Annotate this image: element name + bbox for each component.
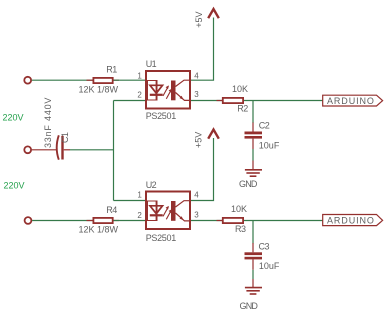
wire C3 to GND <box>252 259 254 287</box>
svg-text:2: 2 <box>137 91 142 100</box>
wire junction to C3 <box>252 221 254 253</box>
wire pad1 to R1 <box>32 79 93 81</box>
emitter U2 with arrow <box>176 213 191 221</box>
wire C2 to GND <box>252 139 254 169</box>
svg-text:+5V: +5V <box>194 132 204 148</box>
svg-text:10K: 10K <box>232 84 248 94</box>
wire bus vertical <box>113 101 115 201</box>
net flag ARDUINO bottom <box>323 215 383 226</box>
collector U2 <box>176 201 191 207</box>
svg-text:GND: GND <box>239 179 258 189</box>
svg-text:C3: C3 <box>259 241 270 251</box>
svg-text:+5V: +5V <box>194 11 204 27</box>
capacitor C3 <box>245 241 280 271</box>
wire R1 pin stubs <box>87 79 93 81</box>
emitter U1 with arrow <box>176 93 191 101</box>
terminal pad bottom <box>25 217 32 224</box>
wire U1 pin3 to R2 <box>191 100 222 102</box>
svg-text:220V: 220V <box>3 113 24 123</box>
wire U2 pin3 to R3 <box>191 220 222 222</box>
wire bus to U2 pin1 <box>114 200 146 202</box>
svg-text:PS2501: PS2501 <box>146 111 177 121</box>
light arrows U1 <box>163 85 172 98</box>
wire U1 pin4 to +5V <box>191 18 214 81</box>
wire U2 pin4 to +5V <box>191 138 214 201</box>
resistor R2 <box>223 84 248 114</box>
svg-text:ARDUINO: ARDUINO <box>327 96 375 106</box>
svg-text:R4: R4 <box>106 205 117 215</box>
LED D-U1 <box>150 81 163 101</box>
wire R1 to U1 pin1 <box>114 79 146 81</box>
svg-text:4: 4 <box>194 71 199 80</box>
svg-text:ARDUINO: ARDUINO <box>327 215 375 225</box>
supply +5V lower <box>194 130 219 149</box>
resistor R3 <box>223 204 247 234</box>
svg-text:4: 4 <box>194 191 199 200</box>
svg-text:1: 1 <box>137 191 142 200</box>
ground GND bottom <box>240 288 263 311</box>
resistor R4 <box>79 205 119 234</box>
svg-text:10K: 10K <box>231 204 247 214</box>
svg-text:12K 1/8W: 12K 1/8W <box>79 225 119 235</box>
svg-text:R2: R2 <box>237 104 248 114</box>
wire pad2 to C1 <box>32 149 56 151</box>
svg-text:C2: C2 <box>259 120 270 130</box>
phototransistor base bar U2 <box>171 201 176 221</box>
collector U1 <box>176 80 191 86</box>
svg-text:U1: U1 <box>146 59 157 69</box>
svg-text:PS2501: PS2501 <box>146 233 177 243</box>
LED loop rectangle U2 <box>148 201 158 221</box>
wire pad3 to R4 <box>32 220 92 222</box>
wire U1 pin2 to bus <box>114 100 146 102</box>
svg-text:U2: U2 <box>146 180 157 190</box>
terminal pad top <box>24 77 31 84</box>
resistor R1 <box>79 65 119 95</box>
svg-text:10uF: 10uF <box>259 261 280 271</box>
capacitor C2 <box>245 120 280 150</box>
svg-text:R1: R1 <box>106 65 117 75</box>
wire R4 to U2 pin2 <box>114 220 146 222</box>
svg-text:12K 1/8W: 12K 1/8W <box>79 84 119 94</box>
svg-text:GND: GND <box>240 301 259 311</box>
svg-text:33nF 440V: 33nF 440V <box>43 97 53 148</box>
svg-text:220V: 220V <box>4 181 25 191</box>
optocoupler U2 <box>137 180 199 243</box>
svg-text:R3: R3 <box>235 224 246 234</box>
LED D-U2 <box>150 201 163 221</box>
LED loop rectangle U1 <box>148 81 158 101</box>
light arrows U2 <box>163 206 172 219</box>
svg-text:3: 3 <box>194 90 199 99</box>
wire junction to C2 <box>252 101 254 132</box>
wire R2 to flag <box>244 100 323 102</box>
capacitor C1 <box>43 97 70 160</box>
ground GND top <box>239 170 262 189</box>
svg-text:3: 3 <box>194 211 199 220</box>
optocoupler U1 <box>137 59 199 121</box>
svg-text:C1: C1 <box>60 132 70 143</box>
svg-text:2: 2 <box>137 211 142 220</box>
wire C1 to bus <box>64 149 114 151</box>
terminal pad middle <box>24 146 31 153</box>
supply +5V top <box>194 9 219 28</box>
svg-text:10uF: 10uF <box>259 140 280 150</box>
svg-text:1: 1 <box>137 72 142 81</box>
wire R3 to flag <box>244 220 323 222</box>
phototransistor base bar U1 <box>171 81 176 101</box>
net flag ARDUINO top <box>323 95 383 106</box>
